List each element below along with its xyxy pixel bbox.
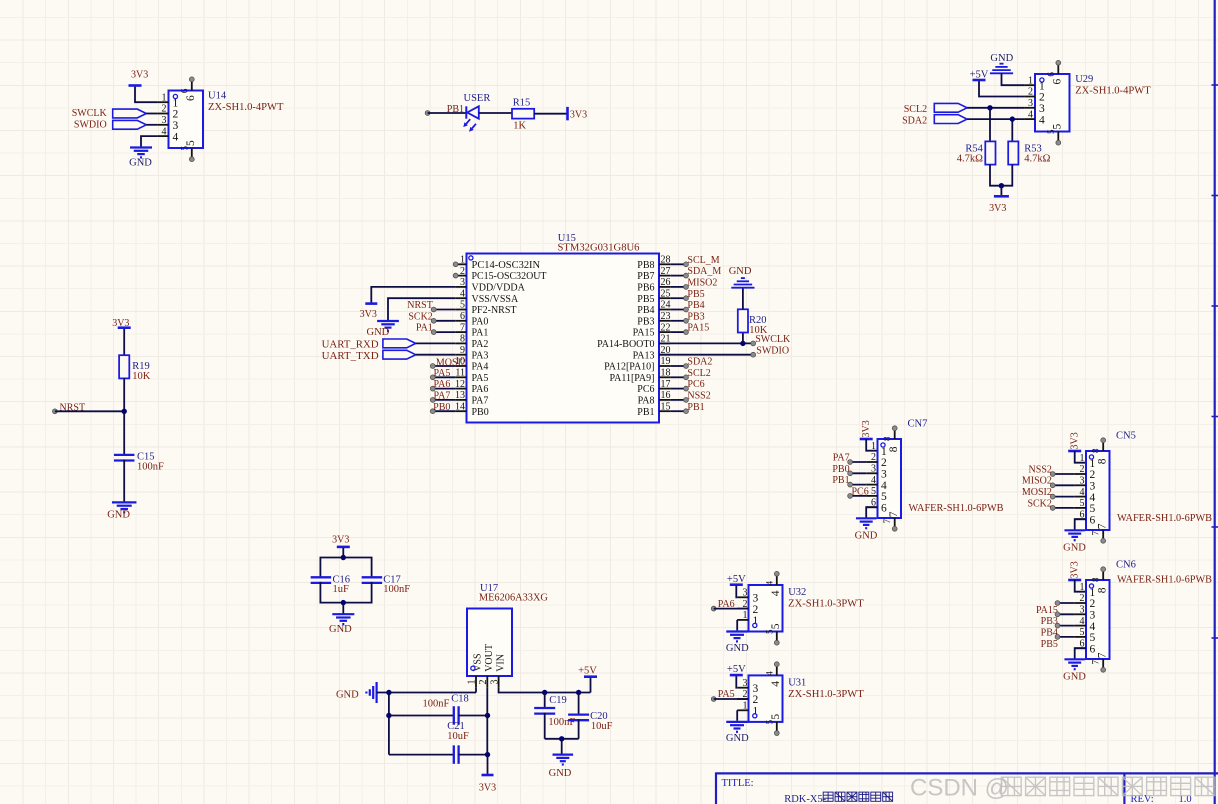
svg-text:10K: 10K bbox=[132, 371, 151, 382]
svg-text:8: 8 bbox=[1096, 458, 1108, 464]
svg-text:5: 5 bbox=[1052, 124, 1064, 130]
U14 pin 5 (bottom) bbox=[191, 148, 193, 158]
power 3V3 (U15 VDD) bbox=[365, 302, 377, 305]
svg-text:4: 4 bbox=[1039, 114, 1045, 126]
wire/net label PB3 (pin 23) bbox=[670, 320, 686, 322]
U29 pin 1 bbox=[1024, 84, 1035, 86]
svg-text:SCL2: SCL2 bbox=[687, 368, 710, 379]
wire/net label MISO2 (pin 26) bbox=[670, 286, 686, 288]
wire pin1 down bbox=[475, 687, 477, 692]
svg-text:19: 19 bbox=[661, 356, 671, 367]
CN6 pin 4 bbox=[1075, 625, 1086, 627]
resistor R20 bbox=[738, 309, 748, 332]
svg-text:1: 1 bbox=[1080, 453, 1085, 464]
svg-text:NSS2: NSS2 bbox=[1029, 464, 1052, 475]
svg-text:23: 23 bbox=[661, 311, 671, 322]
U14 pin 1 bbox=[158, 101, 169, 103]
junction GND rail bbox=[386, 690, 391, 695]
svg-text:8: 8 bbox=[1090, 448, 1100, 453]
wire R20 to GND bbox=[742, 288, 744, 310]
ground GND (CN7) bbox=[856, 517, 877, 519]
svg-text:PB3: PB3 bbox=[687, 311, 704, 322]
wire C15 to GND bbox=[123, 460, 125, 503]
svg-text:15: 15 bbox=[661, 401, 671, 412]
svg-text:17: 17 bbox=[661, 379, 671, 390]
svg-text:PB5: PB5 bbox=[637, 294, 654, 305]
wire SWCLK to pin2 bbox=[146, 113, 158, 115]
svg-text:6: 6 bbox=[185, 95, 197, 101]
svg-text:11: 11 bbox=[455, 368, 465, 379]
svg-text:1: 1 bbox=[753, 615, 759, 627]
wire SCL2 to pin3 bbox=[967, 107, 1024, 109]
svg-text:SDA_M: SDA_M bbox=[687, 266, 721, 277]
U15 pin 8 (PA2) bbox=[455, 342, 466, 344]
wire +5V to U32 pin3 bbox=[735, 586, 738, 597]
svg-text:UART_TXD: UART_TXD bbox=[322, 351, 379, 362]
svg-text:5: 5 bbox=[764, 719, 774, 724]
junction GND stem bbox=[559, 736, 564, 741]
CN6 pin 8 (top) bbox=[1102, 571, 1104, 580]
wire/net label SDA_M (pin 27) bbox=[670, 275, 686, 277]
svg-text:GND: GND bbox=[329, 624, 352, 635]
ground GND (R20) bbox=[731, 287, 754, 289]
wire R54/R53 to 3V3 bbox=[990, 165, 1012, 186]
capacitor C15 bbox=[114, 454, 135, 456]
U15 pin 19 (PA12[PA10]) bbox=[659, 365, 670, 367]
svg-text:5: 5 bbox=[764, 629, 774, 634]
svg-text:MISO2: MISO2 bbox=[1022, 476, 1052, 487]
svg-text:PF2-NRST: PF2-NRST bbox=[472, 305, 517, 316]
wire C21 rail bbox=[389, 754, 454, 756]
junction 3V3 node bbox=[999, 183, 1004, 188]
svg-text:ZX-SH1.0-4PWT: ZX-SH1.0-4PWT bbox=[1075, 86, 1151, 97]
svg-text:5: 5 bbox=[871, 486, 876, 497]
svg-text:3V3: 3V3 bbox=[1069, 561, 1080, 578]
svg-text:+5V: +5V bbox=[970, 69, 989, 80]
wire/net label PA7 (pin 13) bbox=[433, 399, 455, 401]
svg-text:5: 5 bbox=[1046, 129, 1056, 134]
svg-text:PB1: PB1 bbox=[832, 475, 849, 486]
U29 pin 2 bbox=[1024, 96, 1035, 98]
wire SWDIO to pin3 bbox=[146, 124, 158, 126]
resistor R19 bbox=[119, 355, 129, 378]
wire R15 to 3V3 bbox=[534, 113, 567, 115]
power 3V3 (R15) bbox=[566, 107, 569, 121]
svg-text:PA15: PA15 bbox=[687, 323, 709, 334]
svg-text:3: 3 bbox=[743, 588, 748, 599]
U31 pin 1 bbox=[737, 709, 748, 711]
U15 pin 3 (VDD/VDDA) bbox=[455, 286, 466, 288]
CN5 pin1 indicator circle bbox=[1089, 455, 1093, 459]
svg-text:1: 1 bbox=[871, 441, 876, 452]
svg-text:4: 4 bbox=[162, 126, 167, 137]
svg-text:PA8: PA8 bbox=[638, 396, 655, 407]
svg-text:2: 2 bbox=[1090, 469, 1096, 481]
svg-text:8: 8 bbox=[888, 446, 900, 452]
U15 pin 14 (PB0) bbox=[455, 410, 466, 412]
border tick y=195.5 bbox=[1212, 195, 1218, 197]
power 3V3 (R54/R53) bbox=[994, 195, 1009, 198]
svg-text:6: 6 bbox=[1090, 643, 1096, 655]
svg-text:4: 4 bbox=[173, 131, 179, 143]
svg-text:PA12[PA10]: PA12[PA10] bbox=[604, 362, 654, 373]
svg-text:2: 2 bbox=[881, 457, 887, 469]
svg-text:3: 3 bbox=[489, 680, 500, 685]
wire/net label PC6 (CN7 pin 5) bbox=[850, 495, 866, 497]
wire C18 rail bbox=[389, 715, 454, 717]
svg-text:GND: GND bbox=[729, 266, 752, 277]
U31 pin 5 (bottom) bbox=[776, 722, 778, 732]
svg-text:PB8: PB8 bbox=[637, 260, 654, 271]
svg-text:6: 6 bbox=[881, 502, 887, 514]
connector U29 body bbox=[1035, 74, 1070, 132]
svg-text:5: 5 bbox=[460, 300, 465, 311]
U15 pin 7 (PA1) bbox=[455, 331, 466, 333]
svg-text:VSS/VSSA: VSS/VSSA bbox=[472, 294, 519, 305]
junction NRST/R19/C15 bbox=[122, 409, 127, 414]
wire to GND bbox=[342, 603, 344, 615]
wire left vertical bbox=[388, 693, 390, 755]
U15 pin 20 (PA13) bbox=[659, 354, 670, 356]
svg-text:3: 3 bbox=[1090, 481, 1096, 493]
CN7 pin 4 bbox=[866, 484, 877, 486]
svg-text:100nF: 100nF bbox=[548, 717, 575, 728]
wire/net label PA5 (pin 11) bbox=[433, 376, 455, 378]
svg-text:7: 7 bbox=[888, 511, 900, 517]
connector U31 body bbox=[749, 675, 783, 722]
U32 pin 1 bbox=[737, 619, 748, 621]
power +5V (VIN) bbox=[584, 675, 597, 678]
wire C20 bottom bbox=[578, 719, 580, 739]
U14 pin 6 (top) bbox=[191, 81, 193, 91]
CN5 pin 8 (top) bbox=[1102, 442, 1104, 451]
ground GND (CN5) bbox=[1064, 529, 1085, 531]
svg-text:4: 4 bbox=[460, 288, 465, 299]
svg-text:10uF: 10uF bbox=[447, 731, 469, 742]
wire/net label MOSI2 (pin 10) bbox=[433, 365, 455, 367]
U15 pin 28 (PB8) bbox=[659, 263, 670, 265]
capacitor C18 bbox=[453, 706, 455, 725]
svg-text:14: 14 bbox=[455, 401, 465, 412]
svg-text:4: 4 bbox=[871, 475, 876, 486]
junction C19 bbox=[542, 690, 547, 695]
wire/net label SCK2 (pin 6) bbox=[434, 320, 456, 322]
svg-text:1: 1 bbox=[460, 255, 465, 266]
wire VDD to 3V3 bbox=[371, 287, 455, 303]
CN7 pin 7 (bottom) bbox=[894, 518, 896, 527]
wire +5V to U31 pin3 bbox=[735, 676, 738, 687]
U15 pin 5 (PF2-NRST) bbox=[455, 309, 466, 311]
resistor R54 bbox=[985, 141, 995, 164]
U15 pin 27 (PB7) bbox=[659, 275, 670, 277]
svg-text:26: 26 bbox=[661, 277, 671, 288]
wire C19-C20 bottom rail bbox=[545, 738, 579, 740]
svg-text:3: 3 bbox=[460, 277, 465, 288]
svg-text:GND: GND bbox=[1063, 672, 1086, 683]
connector CN7 body bbox=[878, 439, 902, 518]
svg-text:27: 27 bbox=[661, 266, 671, 277]
wire PA13 to SWDIO bbox=[659, 354, 753, 356]
ground GND (CN6) bbox=[1064, 658, 1085, 660]
svg-text:U31: U31 bbox=[788, 677, 806, 688]
svg-text:SCK2: SCK2 bbox=[408, 311, 432, 322]
svg-text:1: 1 bbox=[743, 610, 748, 621]
wire CN6 pin6 to GND bbox=[1075, 648, 1086, 659]
ground GND (C19/C20) bbox=[553, 753, 574, 755]
CN7 pin 8 (top) bbox=[894, 430, 896, 439]
wire PB1 to LED bbox=[428, 112, 467, 114]
capacitor C21 bbox=[453, 745, 455, 764]
CN7 pin 2 bbox=[866, 461, 877, 463]
wire/net label SCL_M (pin 28) bbox=[670, 263, 686, 265]
svg-text:PA3: PA3 bbox=[472, 350, 489, 361]
svg-text:UART_RXD: UART_RXD bbox=[322, 340, 379, 351]
wire/net label NRST (pin 5) bbox=[434, 309, 456, 311]
wire/net label PB3 (CN6 pin 3) bbox=[1058, 613, 1075, 615]
svg-text:PA14-BOOT0: PA14-BOOT0 bbox=[597, 339, 654, 350]
svg-text:18: 18 bbox=[661, 368, 671, 379]
svg-text:1: 1 bbox=[173, 97, 179, 109]
ground GND (U31) bbox=[726, 721, 748, 723]
wire 3V3 to R19 bbox=[123, 329, 125, 355]
junction SDA2/R53 bbox=[1010, 116, 1015, 121]
svg-text:NRST: NRST bbox=[407, 300, 433, 311]
svg-text:4: 4 bbox=[1090, 621, 1096, 633]
regulator U17 body bbox=[467, 609, 512, 677]
wire/net label PB4 (CN6 pin 4) bbox=[1058, 625, 1075, 627]
svg-text:PB7: PB7 bbox=[637, 271, 654, 282]
svg-text:CN7: CN7 bbox=[908, 418, 928, 429]
svg-text:PB1: PB1 bbox=[447, 104, 464, 115]
svg-text:PB3: PB3 bbox=[637, 316, 654, 327]
U15 pin 26 (PB6) bbox=[659, 286, 670, 288]
svg-text:3V3: 3V3 bbox=[332, 535, 349, 546]
svg-text:PA7: PA7 bbox=[472, 396, 489, 407]
svg-text:7: 7 bbox=[1090, 531, 1100, 536]
border tick y=306 bbox=[1212, 305, 1218, 307]
U14 pin 4 bbox=[158, 135, 169, 137]
svg-text:7: 7 bbox=[1096, 652, 1108, 658]
CN7 pin 3 bbox=[866, 472, 877, 474]
svg-text:ZX-SH1.0-4PWT: ZX-SH1.0-4PWT bbox=[208, 102, 284, 113]
svg-text:PB5: PB5 bbox=[687, 289, 704, 300]
border tick y=527 bbox=[1212, 526, 1218, 528]
U15 pin 6 (PA0) bbox=[455, 320, 466, 322]
svg-text:PA5: PA5 bbox=[718, 689, 735, 700]
CN6 pin 7 (bottom) bbox=[1102, 659, 1104, 668]
svg-text:3: 3 bbox=[753, 593, 759, 605]
net label PA6 / wire to pin2 bbox=[711, 606, 716, 611]
title block frame bbox=[715, 772, 1218, 774]
wire 3V3 to CN5 pin1 bbox=[1075, 451, 1086, 463]
U31 pin 2 bbox=[737, 698, 748, 700]
svg-text:PC6: PC6 bbox=[852, 487, 869, 498]
ground GND (U14) bbox=[130, 146, 152, 148]
svg-text:PA5: PA5 bbox=[434, 368, 451, 379]
svg-text:R15: R15 bbox=[513, 97, 531, 108]
wire R20 bottom bbox=[742, 333, 744, 344]
wire CN5 pin6 to GND bbox=[1075, 519, 1086, 530]
wire/net label PA1 (pin 7) bbox=[434, 331, 456, 333]
wire U31 pin1 to GND bbox=[736, 710, 738, 721]
svg-text:4: 4 bbox=[1090, 492, 1096, 504]
wire R53 top bbox=[1011, 119, 1013, 141]
svg-text:4: 4 bbox=[1028, 109, 1033, 120]
U15 pin 2 (PC15-OSC32OUT) bbox=[455, 275, 466, 277]
svg-text:GND: GND bbox=[855, 531, 878, 542]
U29 pin 5 (bottom) bbox=[1057, 132, 1059, 142]
wire/net label NSS2 (CN5 pin 2) bbox=[1053, 473, 1075, 475]
wire/net label PC6 (pin 17) bbox=[670, 388, 686, 390]
svg-text:100nF: 100nF bbox=[422, 699, 449, 710]
wire CN7 pin6 to GND bbox=[866, 507, 877, 518]
U15 pin 1 (PC14-OSC32IN) bbox=[455, 263, 466, 265]
connector CN5 body bbox=[1086, 451, 1110, 530]
wire/net label PB5 (pin 25) bbox=[670, 297, 686, 299]
svg-text:WAFER-SH1.0-6PWB: WAFER-SH1.0-6PWB bbox=[1117, 575, 1212, 586]
svg-text:3: 3 bbox=[753, 683, 759, 695]
svg-text:VOUT: VOUT bbox=[484, 644, 495, 672]
svg-text:MOSI2: MOSI2 bbox=[1022, 487, 1052, 498]
svg-text:NSS2: NSS2 bbox=[687, 391, 710, 402]
wire/net label SCL2 (pin 18) bbox=[670, 376, 686, 378]
svg-text:GND: GND bbox=[129, 157, 152, 168]
svg-text:USER: USER bbox=[464, 93, 491, 104]
svg-text:U14: U14 bbox=[208, 91, 227, 102]
svg-text:SDA2: SDA2 bbox=[902, 115, 927, 126]
wire C19 stem top bbox=[544, 693, 546, 708]
svg-text:PB4: PB4 bbox=[687, 300, 704, 311]
svg-text:9: 9 bbox=[460, 345, 465, 356]
svg-text:1: 1 bbox=[1039, 80, 1045, 92]
svg-text:+5V: +5V bbox=[727, 574, 746, 585]
svg-text:2: 2 bbox=[871, 452, 876, 463]
svg-text:4: 4 bbox=[764, 580, 774, 585]
svg-text:1: 1 bbox=[1080, 582, 1085, 593]
wire U14 pin4 to GND bbox=[141, 136, 158, 147]
svg-text:ZX-SH1.0-3PWT: ZX-SH1.0-3PWT bbox=[788, 599, 864, 610]
svg-text:U29: U29 bbox=[1075, 74, 1093, 85]
svg-text:12: 12 bbox=[455, 379, 465, 390]
svg-text:3V3: 3V3 bbox=[1069, 432, 1080, 449]
svg-text:10uF: 10uF bbox=[591, 721, 613, 732]
ground GND (U15 VSS) bbox=[377, 320, 399, 322]
node PB1 wire end bbox=[425, 111, 430, 116]
svg-text:3V3: 3V3 bbox=[570, 109, 587, 120]
svg-text:PB6: PB6 bbox=[637, 283, 654, 294]
svg-text:1: 1 bbox=[1028, 75, 1033, 86]
wire VSS to GND bbox=[388, 298, 455, 321]
svg-text:5: 5 bbox=[185, 140, 197, 146]
svg-text:PA7: PA7 bbox=[833, 453, 850, 464]
U15 pin 18 (PA11[PA9]) bbox=[659, 376, 670, 378]
svg-text:3: 3 bbox=[1090, 610, 1096, 622]
U14 pin 3 bbox=[158, 124, 169, 126]
svg-text:7: 7 bbox=[882, 519, 892, 524]
svg-text:GND: GND bbox=[367, 327, 390, 338]
U17 pin 2 bbox=[486, 676, 488, 687]
wire C20 stem top bbox=[578, 693, 580, 715]
CN6 pin 2 bbox=[1075, 602, 1086, 604]
svg-text:2: 2 bbox=[1039, 92, 1045, 104]
U31 pin1 indicator circle bbox=[753, 714, 757, 718]
svg-text:C18: C18 bbox=[451, 694, 469, 705]
U29 pin 4 bbox=[1024, 118, 1035, 120]
svg-text:25: 25 bbox=[661, 288, 671, 299]
wire/net label PA15 (pin 22) bbox=[670, 331, 686, 333]
U31 pin 3 bbox=[737, 687, 748, 689]
capacitor C17 bbox=[362, 576, 383, 578]
wire +5V stem bbox=[590, 678, 592, 693]
wire/net label PA7 (CN7 pin 2) bbox=[850, 461, 866, 463]
LED D-USER bbox=[465, 106, 467, 118]
svg-text:2: 2 bbox=[460, 266, 465, 277]
wire GND to U29 pin1 bbox=[1002, 73, 1025, 85]
svg-text:100nF: 100nF bbox=[383, 584, 410, 595]
svg-text:SCL2: SCL2 bbox=[904, 104, 927, 115]
wire NRST bbox=[55, 410, 124, 412]
connector U32 body bbox=[749, 585, 783, 632]
CN5 pin 3 bbox=[1075, 484, 1086, 486]
svg-text:10K: 10K bbox=[749, 325, 768, 336]
U32 pin 5 (bottom) bbox=[776, 632, 778, 642]
connector CN6 body bbox=[1086, 580, 1110, 659]
svg-text:13: 13 bbox=[455, 390, 465, 401]
resistor R15 bbox=[512, 109, 534, 119]
wire bottom rail C16-C17 bbox=[320, 582, 371, 603]
svg-text:GND: GND bbox=[107, 509, 130, 520]
U15 pin 11 (PA5) bbox=[455, 376, 466, 378]
wire 3V3 to U14 pin1 bbox=[135, 87, 158, 103]
node NRST wire end bbox=[53, 409, 58, 414]
wire/net label SCK2 (CN5 pin 5) bbox=[1053, 507, 1075, 509]
ground GND (U32) bbox=[726, 630, 748, 632]
wire 3V3 to CN7 pin1 bbox=[866, 439, 877, 451]
svg-text:ZX-SH1.0-3PWT: ZX-SH1.0-3PWT bbox=[788, 689, 864, 700]
U31 pin 4 (top) bbox=[776, 666, 778, 676]
svg-text:3: 3 bbox=[881, 469, 887, 481]
svg-text:2: 2 bbox=[1090, 598, 1096, 610]
junction bottom rail bbox=[341, 600, 346, 605]
svg-text:PB0: PB0 bbox=[472, 407, 489, 418]
CN5 pin 2 bbox=[1075, 473, 1086, 475]
junction top rail bbox=[341, 555, 346, 560]
wire top rail C16-C17 bbox=[320, 558, 371, 578]
svg-text:VDD/VDDA: VDD/VDDA bbox=[472, 283, 526, 294]
svg-text:7: 7 bbox=[1090, 660, 1100, 665]
wire 3V3 to rail bbox=[342, 548, 344, 558]
svg-text:6: 6 bbox=[1052, 79, 1064, 85]
svg-text:3: 3 bbox=[1039, 103, 1045, 115]
capacitor C19 bbox=[534, 707, 555, 709]
U32 pin1 indicator circle bbox=[753, 623, 757, 627]
svg-text:ME6206A33XG: ME6206A33XG bbox=[479, 593, 548, 604]
wire SDA2 to pin4 bbox=[967, 118, 1024, 120]
U15 pin 10 (PA4) bbox=[455, 365, 466, 367]
U15 pin 24 (PB4) bbox=[659, 309, 670, 311]
svg-text:GND: GND bbox=[549, 768, 572, 779]
power 3V3 (VOUT) bbox=[482, 774, 494, 777]
svg-text:RDK-X5-: RDK-X5- bbox=[784, 794, 826, 804]
svg-text:SWDIO: SWDIO bbox=[756, 345, 789, 356]
wire PA14-BOOT0 to SWCLK bbox=[659, 342, 753, 344]
svg-text:U32: U32 bbox=[788, 587, 806, 598]
svg-text:MISO2: MISO2 bbox=[687, 278, 717, 289]
U17 pin 3 bbox=[498, 676, 500, 687]
border tick y=638 bbox=[1212, 637, 1218, 639]
wire VOUT down to 3V3 bbox=[486, 687, 488, 754]
U15 pin1 unconnected end bbox=[453, 262, 458, 267]
